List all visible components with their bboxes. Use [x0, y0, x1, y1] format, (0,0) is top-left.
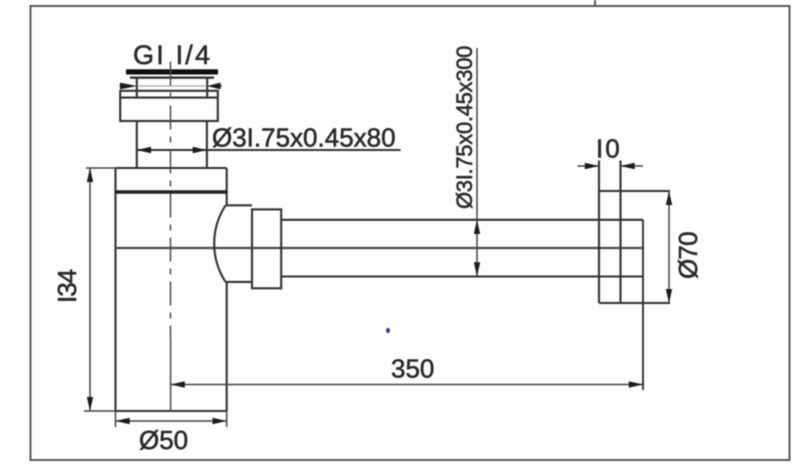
pipe dim arrow down — [474, 262, 480, 276]
10 arrow left (points right) — [585, 163, 599, 169]
horizontal pipe bottom line — [281, 275, 643, 277]
wall flange bottom edge + Ø70 extension — [599, 302, 670, 304]
svg-text:I34: I34 — [52, 269, 82, 303]
Ø50 extension line right — [226, 411, 228, 427]
wall flange left edge — [598, 161, 600, 304]
350 arrow right (points right) — [629, 381, 643, 387]
dimension 350 line — [171, 384, 643, 386]
vertical tail pipe left edge — [136, 121, 138, 168]
svg-text:GI I/4: GI I/4 — [133, 40, 212, 70]
stray blue ink dot — [386, 328, 390, 333]
Ø50 arrow right (points right) — [213, 418, 227, 424]
body flange thick line — [115, 190, 228, 193]
tail pipe dim arrow right (points right) — [193, 147, 207, 153]
Ø70 arrow up — [666, 191, 672, 205]
centerline solid lower part / 350 extension — [170, 340, 172, 411]
thread dim arrow right (points left) — [207, 83, 221, 90]
dimension Ø70 line — [668, 191, 670, 303]
10 arrow right (points left) — [621, 163, 635, 169]
dimension 10 line left — [578, 165, 600, 167]
svg-text:I0: I0 — [596, 134, 622, 164]
dimension 134 line — [89, 168, 91, 411]
vertical centerline (dashed) — [170, 62, 172, 341]
sheet divider tick top — [594, 0, 596, 6]
dimension Ø50 line — [116, 420, 227, 422]
Ø70 arrow down — [666, 289, 672, 303]
cap nut inner line — [120, 97, 218, 99]
dimension 10 line right — [621, 165, 644, 167]
pipe end / 350 extension line — [642, 220, 644, 390]
svg-text:Ø70: Ø70 — [673, 232, 703, 279]
thread neck left line — [136, 78, 138, 98]
svg-text:Ø3I.75x0.45x300: Ø3I.75x0.45x300 — [452, 46, 477, 209]
134 arrow bottom (points down) — [87, 397, 93, 411]
wall flange top edge + Ø70 extension — [599, 190, 670, 192]
pipe dim arrow up — [474, 220, 480, 234]
svg-text:Ø3I.75x0.45x80: Ø3I.75x0.45x80 — [212, 123, 396, 153]
nut curved flange arc — [214, 205, 225, 282]
drain cap top bar — [126, 69, 218, 74]
nut curved flange top line — [226, 204, 252, 206]
Ø50 arrow left (points left) — [116, 418, 130, 424]
350 arrow left (points left) — [171, 381, 185, 387]
tail pipe dimension leader line — [137, 149, 401, 151]
horizontal pipe centerline — [116, 247, 644, 249]
cap under-rim line — [130, 76, 214, 78]
coupling nut body — [252, 209, 281, 288]
Ø50 extension line left — [115, 411, 117, 427]
nut curved flange bottom line — [226, 281, 252, 283]
134 arrow top (points up) — [87, 168, 93, 182]
wall flange right edge — [619, 161, 621, 304]
bottle body outline — [116, 168, 227, 411]
body bottom extension line to 134 dim — [84, 410, 116, 412]
svg-text:350: 350 — [391, 354, 434, 384]
thread neck right line — [206, 78, 208, 98]
tail pipe dim arrow left (points left) — [137, 147, 151, 153]
vertical tail pipe right edge — [206, 121, 208, 168]
pipe diameter dim line vertical — [476, 48, 478, 277]
thread dimension line (G1 1/4) — [120, 85, 128, 87]
horizontal pipe top line — [281, 219, 643, 221]
thread dim arrow left (points right) — [120, 83, 137, 90]
cap nut body — [120, 91, 218, 121]
body top extension line to 134 dim — [86, 167, 116, 169]
svg-text:Ø50: Ø50 — [139, 425, 188, 455]
